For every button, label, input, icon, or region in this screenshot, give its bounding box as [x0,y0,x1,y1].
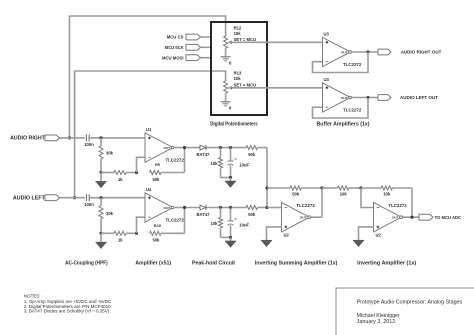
svg-text:U2: U2 [376,233,382,238]
wire U3a feedback [313,52,369,73]
svg-text:BAT47: BAT47 [197,152,211,157]
svg-text:U2: U2 [284,233,290,238]
junction U3b output [366,96,369,99]
svg-text:3. BAT47 Diodes are Schottky (: 3. BAT47 Diodes are Schottky (Vf ~ 0.35V… [24,309,110,314]
svg-text:50k: 50k [153,238,161,243]
label Peak-hold Circuit [192,260,235,266]
resistor 10k peak-hold bleed [211,208,223,238]
junction AUDIO RIGHT net [68,136,71,139]
svg-text:Inverting Summing Amplifier (1: Inverting Summing Amplifier (1x) [255,260,338,266]
wire 50k to summing node [258,207,268,209]
wire U3b output [352,97,379,99]
diode BAT47 (right peak) [197,145,211,157]
junction inverting input node [359,186,362,189]
svg-text:0: 0 [229,60,232,65]
svg-text:OUT: OUT [163,206,170,210]
wire feedback node to op-amp - input [137,217,146,233]
svg-text:U3: U3 [324,32,330,37]
wire ground stem [230,237,232,241]
junction summing input node [265,206,268,209]
svg-text:10uF: 10uF [239,222,249,227]
label Inverting Summing Amplifier (1x) [255,260,338,266]
label AC-Coupling (HPF) [65,260,108,266]
junction peak-hold ground node [229,236,232,239]
resistor 30k to ground (right) [99,138,114,173]
wire summing output riser [321,188,323,217]
junction peak-hold ground node [229,176,232,179]
junction summing feedback tap [265,186,268,189]
op-amp U3 buffer B TLC2272 [323,77,362,112]
port MCU CS [167,34,211,40]
potentiometer R12 10k (SET = MCU) [224,26,256,49]
svg-text:U1: U1 [146,127,152,132]
wire cap to op-amp + input [89,197,145,199]
notes block [24,293,112,313]
ground (U2a + input) [261,241,272,247]
svg-text:TLC2272: TLC2272 [166,217,185,222]
svg-text:Digital Potentiometers: Digital Potentiometers [210,122,258,128]
svg-text:MCU SCK: MCU SCK [165,45,184,50]
diode BAT47 (left peak) [197,205,211,217]
svg-text:SET = MCU: SET = MCU [234,37,256,42]
wire op-amp output to diode [174,207,200,209]
capacitor 100n AC coupling (left) [84,194,94,207]
svg-text:TLC2272: TLC2272 [388,203,407,208]
ground (left input divider) [96,243,107,249]
potentiometer R13 10k (SET = MCU) [224,70,256,93]
svg-text:MCU CS: MCU CS [167,35,184,40]
svg-text:50k: 50k [292,192,300,197]
wire diode to 50k [207,207,247,209]
junction summing output node [320,186,323,189]
wire inverting feedback riser [411,188,413,217]
port AUDIO LEFT [13,195,85,202]
svg-text:SET = MCU: SET = MCU [234,82,256,87]
svg-text:January 3, 2012: January 3, 2012 [357,319,396,325]
svg-text:OUT: OUT [163,146,170,150]
ground 0 under R13 [221,102,232,111]
ground (peak-hold right) [225,181,236,187]
op-amp U4 TLC2272 (left x51) [145,187,184,222]
resistor 10k peak-hold bleed [211,148,223,178]
capacitor 10uF peak-hold [228,148,250,178]
svg-text:Buffer Amplifiers (1x): Buffer Amplifiers (1x) [317,122,370,128]
wire R13 wiper to buffer U3b [228,87,322,89]
svg-text:AUDIO RIGHT OUT: AUDIO RIGHT OUT [401,50,442,55]
junction output/feedback [183,206,186,209]
resistor 1k feedback (left) [101,231,137,242]
wire summing node to U2a - input [267,207,282,209]
svg-text:Inverting Amplifier (1x): Inverting Amplifier (1x) [357,260,416,266]
title block text [357,299,463,325]
wire 50k to output [184,148,186,173]
junction at 10uF hold cap [229,146,232,149]
svg-text:TO MCU ADC: TO MCU ADC [435,215,462,220]
wire peak-hold ground bus [221,236,231,238]
junction at 30k resistor [99,196,102,199]
op-amp U3 buffer A TLC2272 [323,32,362,67]
wire R12 bottom to ground [225,48,227,57]
label Digital Potentiometers [210,122,258,128]
wire R13 bottom to ground [225,93,227,102]
wire U2b + input to ground [359,227,374,241]
svg-text:10k: 10k [383,192,391,197]
svg-text:Prototype Audio Compressor: An: Prototype Audio Compressor: Analog Stage… [357,299,463,305]
junction AUDIO LEFT net [73,196,76,199]
label Buffer Amplifiers (1x) [317,122,370,128]
junction ground node [99,171,102,174]
junction at 10k hold resistor [219,206,222,209]
resistor 50k summing feedback [267,186,322,197]
svg-text:30k: 30k [106,150,114,155]
junction at 30k resistor [99,136,102,139]
svg-text:R5: R5 [155,162,161,167]
resistor R5 50k feedback (right) [150,162,185,182]
ground (right input divider) [96,182,107,188]
svg-text:Michael Kleinigger: Michael Kleinigger [357,313,400,319]
resistor 50k summing input (left) [246,206,258,217]
wire ground stem [230,178,232,182]
resistor 50k summing input (right) [246,146,258,157]
junction U3a output [366,50,369,53]
svg-text:10k: 10k [234,31,242,36]
port TO MCU ADC [419,214,462,220]
svg-text:10k: 10k [340,192,348,197]
svg-text:MCU MOSI: MCU MOSI [162,55,184,60]
svg-text:R13: R13 [234,70,242,75]
port MCU SCK [165,44,211,50]
svg-text:R12: R12 [234,26,242,31]
wire 50k to summing node [258,147,268,149]
resistor 30k to ground (left) [99,198,114,234]
wire U3b feedback [313,98,369,119]
capacitor 100n AC coupling (right) [84,134,94,147]
svg-text:AUDIO LEFT OUT: AUDIO LEFT OUT [400,95,438,100]
resistor 10k inverting feedback [361,186,412,197]
op-amp U2 summing TLC2272 [282,203,316,238]
wire U2a + input to ground [267,227,282,241]
svg-text:50k: 50k [153,177,161,182]
junction feedback node [135,232,138,235]
wire U2a output [311,216,322,218]
wire ground stem [100,233,102,242]
resistor R10 50k feedback (left) [150,223,185,243]
svg-text:U4: U4 [146,187,152,192]
digital potentiometers box U5 [211,22,267,115]
wire net AUDIO RIGHT to potentiometer R12 top [70,16,226,138]
svg-text:100n: 100n [84,142,94,147]
capacitor 10uF peak-hold [228,208,250,238]
ground (U2b + input) [353,241,364,247]
label Amplifier (x51) [135,260,171,266]
wire feedback node to op-amp - input [137,157,146,172]
svg-text:10k: 10k [234,76,242,81]
svg-text:50k: 50k [248,212,256,217]
resistor 1k feedback (right) [101,171,137,182]
svg-text:100n: 100n [84,202,94,207]
wire R12 wiper to buffer U3a [228,41,322,43]
junction output/feedback [183,146,186,149]
junction at 10k hold resistor [219,146,222,149]
svg-text:OUT: OUT [392,216,399,220]
svg-text:AC-Coupling (HPF): AC-Coupling (HPF) [65,260,108,266]
port AUDIO RIGHT [10,135,85,142]
wire summing bus vertical [266,148,268,208]
wire op-amp output to diode [174,147,200,149]
svg-text:1k: 1k [118,238,123,243]
label Inverting Amplifier (1x) [357,260,416,266]
svg-text:U3: U3 [324,77,330,82]
wire ground stem [100,173,102,182]
svg-text:TLC2272: TLC2272 [166,158,185,163]
svg-text:10k: 10k [211,221,219,226]
svg-text:0: 0 [229,105,232,110]
svg-text:10uF: 10uF [239,162,249,167]
svg-text:50k: 50k [248,152,256,157]
svg-text:R10: R10 [154,223,161,228]
svg-text:AUDIO LEFT: AUDIO LEFT [13,195,45,201]
svg-text:NOTES:: NOTES: [24,293,41,298]
title block frame [336,288,474,335]
wire cap to op-amp + input [89,137,145,139]
ground 0 under R12 [221,57,232,66]
wire peak-hold ground bus [221,177,231,179]
op-amp U2 inverting TLC2272 [374,203,408,238]
junction at 10uF hold cap [229,206,232,209]
svg-text:OUT: OUT [341,50,348,54]
wire diode to 50k [207,147,247,149]
wire U3a output [352,51,379,53]
svg-text:Peak-hold Circuit: Peak-hold Circuit [192,260,235,266]
svg-text:1k: 1k [118,177,123,182]
junction feedback node [135,171,138,174]
junction ground node [99,232,102,235]
svg-text:OUT: OUT [300,216,307,220]
junction U2b output [410,216,413,219]
wire to U2b - input [361,188,374,208]
svg-text:TLC2272: TLC2272 [343,62,362,67]
wire 50k to output [184,208,186,234]
svg-text:TLC2272: TLC2272 [343,107,362,112]
port AUDIO RIGHT OUT [378,49,442,55]
svg-text:BAT47: BAT47 [197,212,211,217]
svg-text:Amplifier (x51): Amplifier (x51) [135,260,171,266]
svg-text:30k: 30k [106,211,114,216]
ground (peak-hold left) [225,241,236,247]
svg-text:OUT: OUT [341,96,348,100]
port AUDIO LEFT OUT [378,95,438,101]
svg-text:TLC2272: TLC2272 [296,203,315,208]
wire U2b output [403,216,419,218]
svg-text:AUDIO RIGHT: AUDIO RIGHT [10,136,45,142]
svg-text:10k: 10k [211,161,219,166]
port MCU MOSI [162,55,211,61]
op-amp U1 TLC2272 (right x51) [145,127,184,162]
resistor 10k inverting input [322,186,361,197]
wire net AUDIO LEFT to potentiometer R13 top [75,71,226,198]
